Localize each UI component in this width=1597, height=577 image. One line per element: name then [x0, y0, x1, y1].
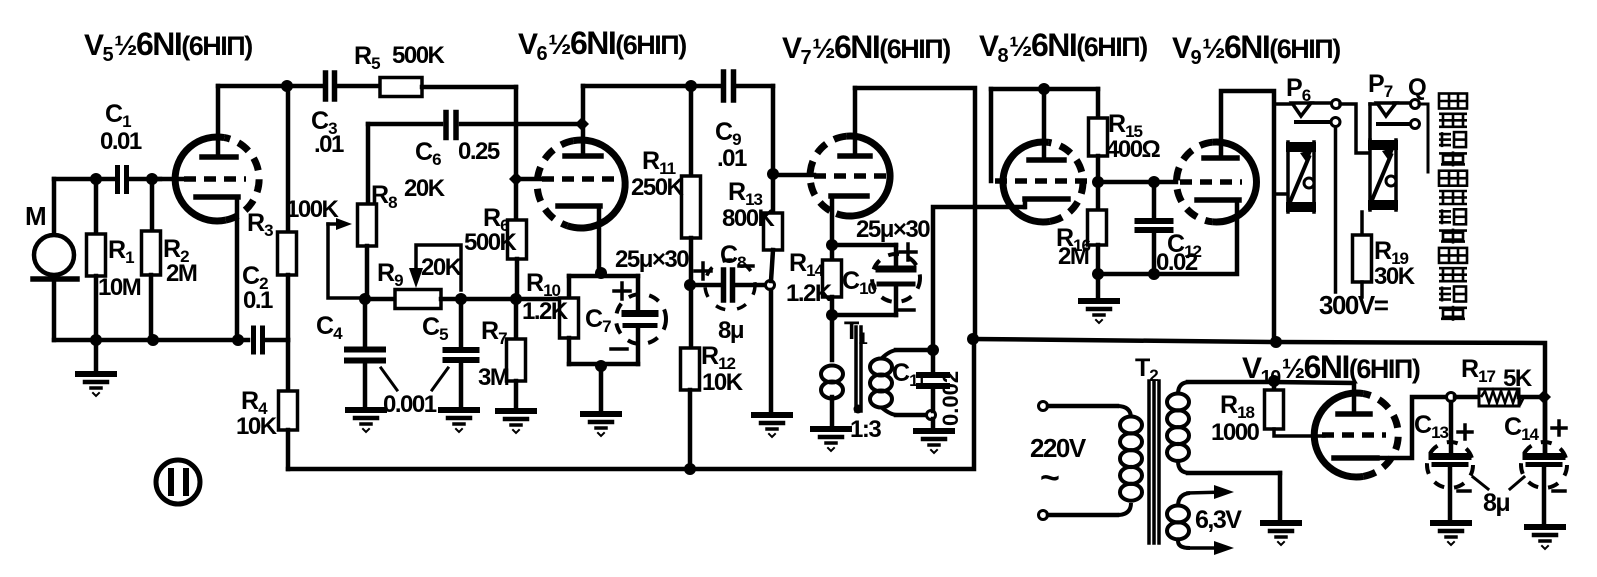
- svg-text:20K: 20K: [404, 175, 446, 202]
- svg-text:1000: 1000: [1211, 419, 1260, 446]
- svg-text:25μ×30: 25μ×30: [856, 216, 930, 243]
- svg-text:25μ×30: 25μ×30: [615, 246, 689, 273]
- svg-text:1.2K: 1.2K: [786, 280, 833, 307]
- svg-text:10K: 10K: [236, 413, 278, 440]
- svg-text:2M: 2M: [166, 260, 197, 287]
- svg-text:400Ω: 400Ω: [1106, 136, 1161, 163]
- svg-text:500K: 500K: [392, 42, 446, 69]
- svg-text:.01: .01: [314, 131, 344, 158]
- svg-text:10M: 10M: [98, 274, 141, 301]
- svg-text:2M: 2M: [1058, 243, 1089, 270]
- svg-text:6,3V: 6,3V: [1195, 506, 1242, 534]
- svg-text:0.01: 0.01: [100, 128, 142, 155]
- svg-text:300V=: 300V=: [1319, 290, 1389, 320]
- svg-text:3M: 3M: [478, 364, 509, 391]
- svg-text:1.2K: 1.2K: [522, 298, 569, 325]
- svg-text:5K: 5K: [1503, 365, 1533, 392]
- svg-text:20K: 20K: [421, 254, 463, 281]
- svg-text:800K: 800K: [722, 205, 776, 232]
- svg-text:0.1: 0.1: [243, 287, 273, 314]
- svg-text:250K: 250K: [631, 174, 685, 201]
- svg-text:~: ~: [1040, 459, 1059, 497]
- svg-text:M: M: [25, 201, 45, 231]
- svg-text:0.001: 0.001: [383, 391, 437, 418]
- svg-text:220V: 220V: [1030, 433, 1087, 463]
- svg-text:1:3: 1:3: [850, 416, 881, 443]
- svg-text:0.02: 0.02: [1156, 249, 1198, 276]
- svg-text:500K: 500K: [464, 229, 518, 256]
- svg-text:100K: 100K: [286, 196, 340, 223]
- svg-text:.01: .01: [717, 145, 747, 172]
- svg-text:0.002: 0.002: [938, 371, 963, 426]
- svg-text:30K: 30K: [1374, 263, 1416, 290]
- svg-text:10K: 10K: [702, 369, 744, 396]
- svg-text:0.25: 0.25: [458, 138, 500, 165]
- svg-text:8μ: 8μ: [718, 317, 744, 344]
- svg-text:Q: Q: [1408, 74, 1426, 101]
- svg-text:8μ: 8μ: [1483, 489, 1509, 517]
